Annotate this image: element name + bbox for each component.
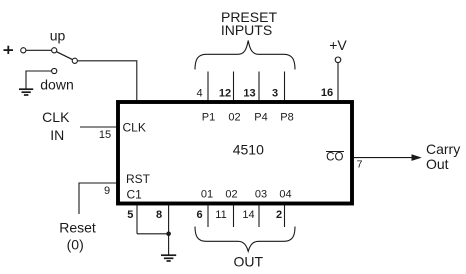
- svg-text:03: 03: [255, 189, 267, 201]
- svg-text:Carry: Carry: [426, 141, 460, 157]
- pin stub Q3 (pin 14): [258, 206, 260, 228]
- svg-text:up: up: [50, 28, 66, 44]
- wire: [137, 233, 169, 235]
- pin stub 8: [168, 206, 170, 255]
- switch S1 pole contact: [21, 48, 26, 53]
- wire: [79, 183, 116, 214]
- wire: [26, 49, 52, 51]
- svg-text:down: down: [40, 77, 73, 93]
- svg-text:02: 02: [228, 112, 240, 124]
- battery + terminal: [4, 46, 14, 54]
- svg-text:14: 14: [242, 209, 254, 221]
- svg-text:11: 11: [215, 209, 226, 221]
- svg-text:IN: IN: [50, 127, 64, 143]
- svg-text:01: 01: [201, 189, 213, 201]
- pin stub 5: [136, 206, 138, 234]
- svg-text:P8: P8: [280, 112, 293, 124]
- svg-text:Reset: Reset: [59, 220, 96, 236]
- IC U1 4510 body: [118, 102, 352, 204]
- switch S1 arm: [56, 52, 72, 60]
- switch S1 up contact: [52, 48, 57, 53]
- pin stub P1 (pin 4): [207, 72, 209, 101]
- svg-text:CLK: CLK: [42, 109, 70, 125]
- svg-text:3: 3: [272, 88, 278, 100]
- svg-text:P4: P4: [254, 112, 267, 124]
- pin stub Q1 (pin 6): [207, 206, 209, 228]
- wire: [77, 61, 136, 101]
- svg-text:13: 13: [243, 88, 255, 100]
- pin stub Q2 (pin 11): [233, 206, 235, 228]
- wire: [337, 63, 339, 101]
- svg-text:4: 4: [196, 88, 202, 100]
- svg-text:OUT: OUT: [234, 254, 264, 270]
- svg-text:16: 16: [321, 87, 333, 99]
- svg-text:04: 04: [279, 189, 291, 201]
- svg-text:INPUTS: INPUTS: [221, 22, 272, 38]
- svg-text:CLK: CLK: [123, 121, 146, 135]
- switch S1 throw contact: [72, 58, 77, 63]
- pin stub Q4 (pin 2): [284, 206, 286, 228]
- svg-text:15: 15: [99, 129, 111, 141]
- wire: [26, 71, 52, 89]
- svg-text:7: 7: [357, 159, 363, 171]
- svg-text:8: 8: [156, 209, 162, 221]
- wire carry out: [354, 157, 413, 159]
- pin stub P2 (pin 12): [233, 72, 235, 101]
- switch S1 down contact: [52, 68, 57, 73]
- junction: [166, 232, 171, 237]
- brace preset inputs: [195, 41, 295, 70]
- svg-text:5: 5: [127, 209, 133, 221]
- svg-text:9: 9: [104, 185, 110, 197]
- arrowhead: [412, 154, 422, 161]
- svg-text:CO: CO: [326, 152, 343, 164]
- svg-text:6: 6: [196, 209, 202, 221]
- svg-text:12: 12: [219, 88, 231, 100]
- ground: [161, 255, 176, 261]
- svg-text:C1: C1: [127, 188, 143, 202]
- svg-text:P1: P1: [202, 112, 215, 124]
- svg-text:(0): (0): [67, 237, 84, 253]
- svg-text:+V: +V: [329, 37, 347, 53]
- ground: [19, 89, 33, 95]
- brace out: [195, 227, 295, 252]
- pin stub P8 (pin 3): [284, 72, 286, 101]
- pin stub P4 (pin 13): [258, 72, 260, 101]
- svg-text:02: 02: [225, 189, 237, 201]
- svg-text:4510: 4510: [233, 142, 264, 158]
- wire: [80, 126, 116, 128]
- svg-text:Out: Out: [426, 156, 449, 172]
- svg-text:2: 2: [276, 209, 282, 221]
- svg-text:RST: RST: [126, 172, 151, 186]
